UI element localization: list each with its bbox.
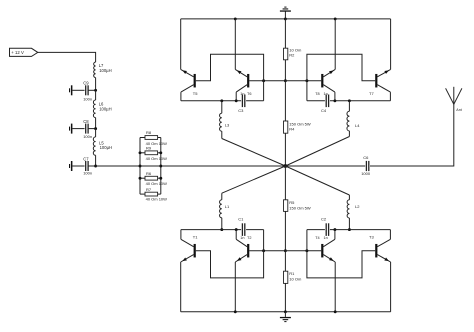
inductor L5 [93, 137, 95, 155]
wire ground to C9 [72, 89, 84, 91]
T4 emitter wire to bottom rail [334, 262, 336, 312]
svg-text:C8: C8 [83, 119, 89, 124]
svg-text:100n: 100n [83, 171, 92, 176]
node C7/L5/main [94, 165, 97, 168]
main wire to resistor bank [96, 165, 140, 167]
wire L1 to cell rail [221, 218, 223, 230]
node C9/L7/L6 [94, 89, 97, 92]
inductor L3 [220, 113, 222, 131]
top-right cell rail right part [330, 100, 391, 102]
svg-text:C7: C7 [83, 156, 89, 161]
T5 base network path [196, 54, 264, 101]
node top rail T6 [234, 17, 237, 20]
T3 collector wire to cell rail [389, 230, 391, 240]
inductor L6 [93, 100, 95, 118]
wire L3 tap down [221, 101, 223, 113]
wire R4 to cross node [284, 133, 286, 166]
wire C8 node to L5 [95, 129, 97, 137]
svg-text:100µH: 100µH [100, 145, 112, 150]
svg-text:C9: C9 [83, 81, 89, 86]
top-left cell rail left part [181, 100, 241, 102]
svg-text:C3: C3 [238, 108, 244, 113]
svg-text:100µH: 100µH [99, 106, 111, 111]
inverted ground symbol top [284, 11, 286, 19]
svg-text:T8: T8 [315, 92, 319, 96]
svg-text:1000: 1000 [361, 171, 371, 176]
node base/right cell edge bottom [305, 249, 308, 252]
T5 collector wire to cell rail [180, 92, 182, 101]
T6 collector wire to cell rail [235, 92, 237, 101]
T2 collector wire to cell rail [235, 230, 237, 240]
capacitor C6 [365, 161, 367, 171]
wire L6 to C8 node [95, 118, 97, 129]
wire T8 emitter to top rail [334, 19, 336, 70]
svg-text:R4: R4 [289, 127, 295, 132]
ground symbol bottom [284, 312, 286, 317]
wire R1 to bottom rail [284, 283, 286, 311]
wire diagonal to L1 [221, 193, 223, 200]
svg-text:L1: L1 [225, 204, 230, 209]
node L4 tap [348, 99, 351, 102]
transistor T5 [194, 74, 196, 88]
node L3 tap [220, 99, 223, 102]
ground at C7 [71, 161, 73, 171]
svg-text:C4: C4 [321, 108, 327, 113]
ground at C8 [71, 124, 73, 134]
svg-text:40 Om 10W: 40 Om 10W [146, 181, 168, 186]
resistor R7 [140, 193, 145, 195]
node base/right cell edge [305, 79, 308, 82]
svg-text:10 Om: 10 Om [289, 277, 302, 282]
top base line [249, 80, 321, 82]
wire L3 to diagonal [221, 131, 223, 138]
node L1 tap [220, 228, 223, 231]
T2 emitter wire to bottom rail [234, 262, 236, 312]
svg-text:T6: T6 [247, 92, 251, 96]
svg-text:C6: C6 [363, 155, 369, 160]
svg-text:1n: 1n [240, 236, 244, 240]
inductor L7 coil [94, 62, 96, 78]
T8 collector wire to cell rail [334, 92, 336, 101]
node bottom rail T4 [334, 310, 337, 313]
bank rail junctions [139, 151, 142, 154]
svg-text:T4: T4 [315, 236, 319, 240]
svg-text:T5: T5 [193, 91, 198, 96]
svg-text:R2: R2 [289, 53, 295, 58]
resistor bank right rail [160, 138, 162, 195]
resistor R5 [284, 200, 288, 212]
svg-text:T1: T1 [193, 235, 198, 240]
transistor T1 [194, 244, 196, 258]
wire top rail end down to T5 emitter [180, 19, 182, 70]
wire C6 to antenna corner [370, 104, 454, 166]
diagonal L3 to cross [222, 139, 286, 167]
svg-text:100µH: 100µH [99, 68, 111, 73]
capacitor C3 plates [241, 95, 243, 108]
wire C9 to node [88, 89, 96, 91]
wire rail to R2 [284, 19, 286, 48]
top supply rail [181, 18, 391, 20]
wire diagonal to L2 [348, 195, 350, 200]
transistor T7 [375, 74, 377, 88]
node T6 collector [235, 99, 238, 102]
wire T6 emitter to top rail [234, 19, 236, 70]
T3 emitter wire to bottom rail [390, 262, 392, 312]
node top rail T8 [334, 17, 337, 20]
capacitor C8 [85, 124, 87, 134]
capacitor C7 [85, 161, 87, 171]
transistor T4 [321, 244, 323, 258]
svg-text:100n: 100n [83, 97, 92, 102]
node bottom rail center [284, 310, 287, 313]
svg-text:R9: R9 [146, 146, 152, 151]
resistor R8 [140, 137, 145, 139]
node T8 collector [333, 99, 336, 102]
svg-text:+ 12 V: + 12 V [11, 50, 24, 55]
top-right cell rail left part [307, 100, 325, 102]
wire L5 to main node [95, 155, 97, 166]
diagonal L1 to cross [222, 166, 286, 193]
node base/left cell edge bottom [262, 249, 265, 252]
top-left cell rail right part [246, 100, 264, 102]
main wire cross to C6 [285, 165, 365, 167]
node T4 collector bottom [333, 228, 336, 231]
wire L7 to C9 node [95, 78, 97, 91]
bottom-right cell rail right part [330, 229, 391, 231]
svg-text:T3: T3 [369, 235, 374, 240]
svg-text:L2: L2 [355, 204, 360, 209]
svg-text:Ant: Ant [456, 108, 461, 112]
T1 collector wire to cell rail [180, 230, 182, 240]
svg-text:40 Om 10W: 40 Om 10W [146, 197, 168, 202]
+12V supply flag [10, 48, 38, 56]
wire +12V to rail [38, 52, 96, 62]
wire cross to R5 [284, 166, 286, 200]
T1 emitter wire to bottom rail [180, 262, 182, 312]
svg-text:T7: T7 [369, 91, 374, 96]
inductor L4 [347, 111, 349, 131]
wire R5 to base node bottom [284, 211, 286, 250]
wire C8 to node [88, 128, 96, 130]
resistor R6 [140, 177, 145, 179]
svg-text:150 Om 5W: 150 Om 5W [289, 206, 311, 211]
svg-text:R8: R8 [146, 130, 152, 135]
capacitor C9 [85, 85, 87, 95]
node top rail center [284, 17, 287, 20]
cross node [284, 164, 288, 168]
node L2 tap [348, 228, 351, 231]
inductor L2 [347, 200, 349, 218]
svg-text:R7: R7 [146, 187, 152, 192]
svg-text:1n: 1n [324, 236, 328, 240]
inductor L1 [220, 200, 222, 218]
diagonal L2 to cross [285, 166, 349, 195]
svg-text:L3: L3 [225, 123, 230, 128]
bottom-right cell rail left part [307, 229, 325, 231]
svg-text:40 Om 10W: 40 Om 10W [146, 156, 168, 161]
bottom ground rail [181, 311, 391, 313]
transistor T8 [321, 74, 323, 88]
wire L4 to diagonal [348, 131, 350, 137]
antenna symbol [446, 88, 454, 104]
svg-text:C1: C1 [238, 216, 244, 221]
svg-text:R6: R6 [146, 171, 152, 176]
node base line center top [284, 79, 287, 82]
T3 base network path [307, 230, 375, 278]
svg-text:L4: L4 [355, 123, 360, 128]
resistor bank left rail [139, 138, 141, 195]
main wire bank to cross node [161, 165, 286, 167]
wire C7 to node [88, 165, 96, 167]
svg-text:100n: 100n [83, 134, 92, 139]
transistor T2 [247, 244, 249, 258]
transistor T3 [375, 244, 377, 258]
bottom base line [249, 250, 321, 252]
T4 collector wire to cell rail [334, 230, 336, 240]
svg-text:T2: T2 [247, 236, 251, 240]
T7 base network path [307, 54, 375, 101]
capacitor C1 plates [241, 223, 243, 236]
resistor R2 [284, 48, 288, 60]
bottom-left cell rail left part [181, 229, 241, 231]
node C8/L6/L5 [94, 127, 97, 130]
wire R2 to base node [284, 60, 286, 81]
diagonal L4 to cross [285, 137, 349, 167]
transistor T6 [247, 74, 249, 88]
wire through resistor bank [140, 165, 161, 167]
svg-text:R5: R5 [289, 200, 295, 205]
node base line center bottom [284, 249, 287, 252]
T7 collector wire to cell rail [389, 92, 391, 101]
wire ground to C8 [72, 128, 84, 130]
node bottom rail T2 [234, 310, 237, 313]
svg-text:C2: C2 [321, 216, 327, 221]
capacitor C2 plates [325, 223, 327, 236]
node base/left cell edge [262, 79, 265, 82]
resistor R4 [284, 121, 288, 133]
resistor R1 [284, 271, 288, 283]
svg-text:R1: R1 [289, 271, 295, 276]
ground at C9 [71, 85, 73, 95]
bottom-left cell rail right part [246, 229, 264, 231]
node T2 collector bottom [235, 228, 238, 231]
wire top rail end down to T7 emitter [390, 19, 392, 70]
resistor R9 [140, 152, 145, 154]
wire ground to C7 [72, 165, 84, 167]
capacitor C4 plates [325, 95, 327, 108]
wire base node to R4 [284, 81, 286, 121]
wire base node to R1 [284, 251, 286, 272]
T1 base network path [196, 230, 264, 278]
wire L2 to cell rail [348, 218, 350, 230]
wire L4 tap down [348, 101, 350, 112]
wire C9 node to L6 [95, 90, 97, 100]
